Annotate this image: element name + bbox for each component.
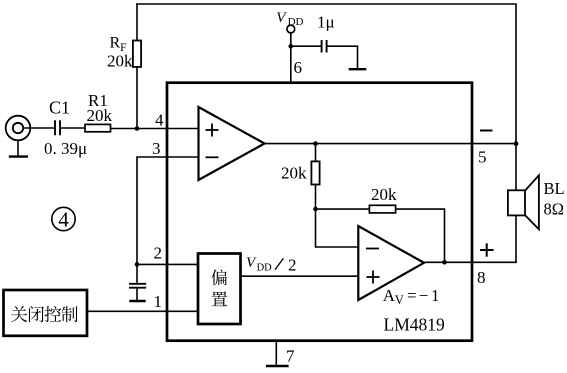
- node: VDD/C3 junction: [289, 44, 294, 49]
- wire: op1 output, pin 5 net: [265, 143, 517, 145]
- wire: speaker bottom lead: [515, 215, 517, 262]
- capacitor C1: [55, 120, 60, 135]
- label bias char 偏: [211, 269, 227, 285]
- label shutdown-control char 控: [45, 306, 62, 322]
- label shutdown-control char 制: [62, 306, 78, 322]
- svg-text:BL: BL: [544, 179, 565, 198]
- capacitor C3 1u: [322, 40, 327, 53]
- capacitor C2 on pin 2: [129, 264, 146, 300]
- wire: RF top lead: [136, 3, 138, 40]
- op-amp U1A: [199, 107, 265, 180]
- wire: R2/R3 node to R3: [316, 208, 370, 210]
- node: op1 output R2 tap: [313, 141, 318, 146]
- wire: jack to C1: [23, 127, 54, 129]
- wire: speaker top lead: [515, 144, 517, 191]
- svg-text:1μ: 1μ: [317, 12, 335, 31]
- resistor R3 20k: [369, 205, 395, 213]
- speaker BL cone: [525, 175, 539, 229]
- resistor RF: [133, 41, 141, 67]
- wire: pin 3 net, op1 inverting input down to pin 2 node: [137, 157, 199, 264]
- wire: pin 1, shutdown control to bias block: [87, 310, 198, 312]
- wire: C3 to ground: [328, 46, 358, 68]
- ground (pin 7): [266, 365, 289, 368]
- input jack J1: [6, 116, 31, 141]
- wire: op2 inverting input: [316, 209, 359, 247]
- svg-text:20k: 20k: [107, 52, 133, 71]
- bias block box: [198, 254, 241, 325]
- svg-text:1: 1: [154, 292, 163, 311]
- output polarity plus mark: [480, 243, 494, 256]
- wire: pin 7 to ground: [275, 341, 277, 365]
- resistor R1: [85, 124, 111, 131]
- svg-text:V: V: [276, 10, 287, 26]
- node: R1/RF/pin4 junction: [135, 126, 140, 131]
- svg-text:20k: 20k: [281, 164, 307, 183]
- wire: bias output VDD/2 to op2 noninverting input: [241, 275, 359, 277]
- svg-text:0. 39μ: 0. 39μ: [44, 139, 87, 158]
- svg-text:6: 6: [294, 58, 303, 77]
- svg-text:C1: C1: [49, 98, 70, 118]
- shutdown control box: [4, 290, 88, 336]
- wire: R1 to op-amp U1A noninverting input, pin 4 net: [111, 128, 199, 130]
- node: pin5/feedback/speaker junction: [514, 141, 519, 146]
- svg-text:5: 5: [478, 148, 487, 167]
- node: pin2/C2 junction: [135, 262, 140, 267]
- svg-text:7: 7: [286, 347, 295, 366]
- svg-text:4: 4: [155, 110, 164, 129]
- svg-text:AV=−1: AV=−1: [383, 286, 440, 307]
- svg-text:DD: DD: [288, 16, 304, 28]
- wire: R3 to op2 output node: [396, 209, 445, 262]
- figure number circle: [52, 207, 75, 230]
- node: op2 output/R3 junction: [442, 260, 447, 265]
- IC boundary box LM4819: [167, 83, 472, 341]
- svg-text:2: 2: [154, 244, 163, 263]
- svg-text:3: 3: [152, 139, 161, 158]
- wire: right rail down to pin5 node: [515, 4, 517, 144]
- svg-text:8Ω: 8Ω: [544, 199, 565, 218]
- wire: RF bottom lead to input node: [136, 67, 138, 129]
- ground (input jack): [9, 140, 28, 157]
- op-amp U1B minus input marker: [366, 248, 379, 250]
- speaker BL driver: [508, 190, 525, 215]
- svg-text:20k: 20k: [371, 185, 397, 204]
- op-amp U1B plus input marker: [367, 271, 380, 284]
- wire: R2 bottom lead: [315, 185, 317, 210]
- label shutdown-control char 闭: [29, 306, 44, 322]
- op-amp U1B: [358, 226, 424, 300]
- label shutdown-control char 关: [11, 306, 27, 322]
- svg-text:8: 8: [477, 268, 486, 287]
- output polarity minus mark: [480, 130, 493, 132]
- wire: op2 output, pin 8 net: [424, 261, 517, 263]
- ground (C2): [129, 300, 145, 302]
- wire: VDD node to C3: [291, 45, 321, 47]
- svg-text:LM4819: LM4819: [384, 314, 446, 334]
- label bias char 置: [212, 291, 228, 306]
- wire: R2 top lead: [315, 144, 317, 162]
- node: R2/R3/op2 inverting junction: [313, 207, 318, 212]
- svg-text:20k: 20k: [87, 106, 113, 125]
- wire: feedback top rail: [136, 3, 517, 5]
- svg-text:4: 4: [58, 208, 69, 232]
- svg-text:VDD2: VDD2: [246, 255, 297, 275]
- wire: VDD down to pin 6: [290, 33, 292, 83]
- wire: pin 2 node to bias block: [137, 263, 198, 265]
- wire: C1 to R1: [61, 127, 85, 129]
- ground (C3): [349, 68, 367, 70]
- op-amp U1A minus input marker: [206, 156, 219, 158]
- op-amp U1A plus input marker: [206, 124, 219, 137]
- resistor R2 20k: [311, 161, 319, 184]
- VDD terminal: [287, 25, 295, 33]
